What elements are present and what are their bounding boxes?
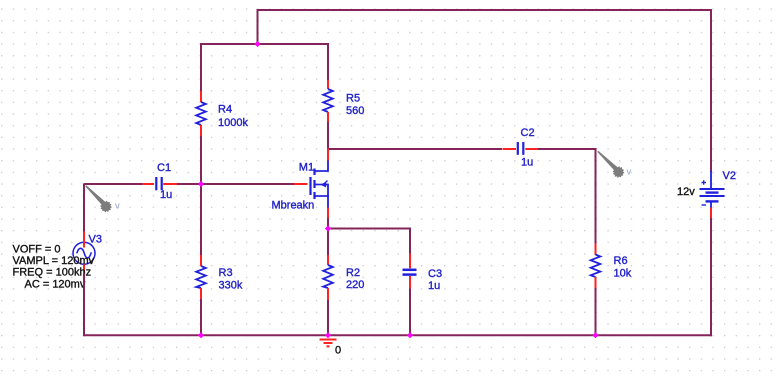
svg-text:Mbreakn: Mbreakn — [272, 199, 315, 211]
wire from C2 to output corner — [538, 149, 596, 244]
transistor M1 (Mbreakn NMOS) — [293, 149, 328, 219]
svg-text:1u: 1u — [428, 280, 440, 292]
svg-text:C2: C2 — [521, 127, 535, 139]
svg-text:V3: V3 — [89, 234, 102, 246]
wire x=201 from C1 junction to R3 — [200, 184, 202, 256]
svg-text:AC = 120mv: AC = 120mv — [25, 278, 86, 290]
probe marker at output node — [597, 151, 623, 177]
wire upper rail y=44 — [200, 43, 329, 45]
resistor R4 — [196, 91, 206, 136]
wire x=410 from C3 to bottom rail — [409, 289, 411, 337]
wire x=201 from R4 to C1 junction — [200, 136, 202, 185]
wire x=84 from V3 to bottom rail — [83, 274, 85, 337]
resistor R2 — [323, 255, 333, 300]
wire left branch from corner down to V3 — [83, 184, 85, 233]
svg-text:1u: 1u — [160, 189, 172, 201]
junction at C3 bottom — [407, 332, 413, 338]
resistor R5 — [323, 80, 333, 122]
wire x=328 from R5 to drain node — [327, 122, 329, 150]
svg-text:FREQ = 100khz: FREQ = 100khz — [13, 267, 92, 279]
svg-text:VAMPL = 120mv: VAMPL = 120mv — [13, 255, 95, 267]
junction at R6 bottom — [592, 332, 598, 338]
ground 0 — [320, 340, 337, 347]
junction at upper rail — [254, 41, 260, 47]
probe marker at input node — [85, 185, 111, 211]
junction at M1 source node — [325, 225, 331, 231]
resistor R6 — [591, 244, 601, 289]
svg-text:M1: M1 — [299, 162, 314, 174]
source V2 (VDC battery) — [700, 171, 725, 218]
svg-text:R5: R5 — [346, 93, 360, 105]
svg-text:v: v — [115, 201, 120, 212]
wire x=328 from upper rail to R5 — [327, 43, 329, 81]
svg-text:R6: R6 — [614, 255, 628, 267]
wire x=711 from V2 to bottom rail — [710, 218, 712, 336]
capacitor C1 — [143, 177, 178, 190]
wire x=328 from R2 to bottom rail — [327, 300, 329, 336]
resistor R3 — [196, 255, 206, 299]
wire x=328 from junction to R2 — [327, 228, 329, 255]
wire x=595.5 from R6 to bottom rail — [595, 288, 597, 336]
capacitor C3 — [403, 254, 417, 289]
svg-text:330k: 330k — [219, 280, 243, 292]
wire from C1 to junction x=201 — [177, 183, 202, 185]
wire x=328 from M1 source to junction — [327, 218, 329, 230]
svg-text:R3: R3 — [219, 267, 233, 279]
wire source row to C3 branch — [327, 229, 410, 255]
svg-text:VOFF = 0: VOFF = 0 — [13, 244, 61, 256]
capacitor C2 — [503, 142, 539, 155]
junction at C1 / gate node — [198, 181, 204, 187]
svg-text:1u: 1u — [521, 157, 533, 169]
svg-text:560: 560 — [346, 105, 364, 117]
wire gate row from junction to M1 gate — [200, 183, 294, 185]
junction at R3 bottom — [198, 332, 204, 338]
svg-text:C3: C3 — [428, 268, 442, 280]
svg-text:1000k: 1000k — [218, 117, 248, 129]
svg-text:v: v — [627, 167, 632, 178]
wire input row from probe corner to C1 — [84, 183, 144, 185]
wire bottom rail — [84, 334, 712, 336]
svg-text:12v: 12v — [677, 186, 695, 198]
wire x=201 from R3 to bottom rail — [200, 299, 202, 336]
wire x=201 from upper rail to R4 — [200, 43, 202, 92]
svg-text:0: 0 — [335, 345, 341, 357]
svg-text:C1: C1 — [157, 162, 171, 174]
junction at ground node — [325, 332, 331, 338]
svg-text:R2: R2 — [346, 267, 360, 279]
svg-text:10k: 10k — [614, 268, 632, 280]
svg-text:220: 220 — [346, 279, 364, 291]
svg-text:R4: R4 — [218, 104, 232, 116]
wire drain row from x=328 to C2 — [327, 148, 502, 150]
source V3 (VSIN) — [73, 232, 95, 275]
svg-text:V2: V2 — [723, 170, 736, 182]
wire top loop from upper rail junction to V2 branch — [258, 10, 712, 172]
